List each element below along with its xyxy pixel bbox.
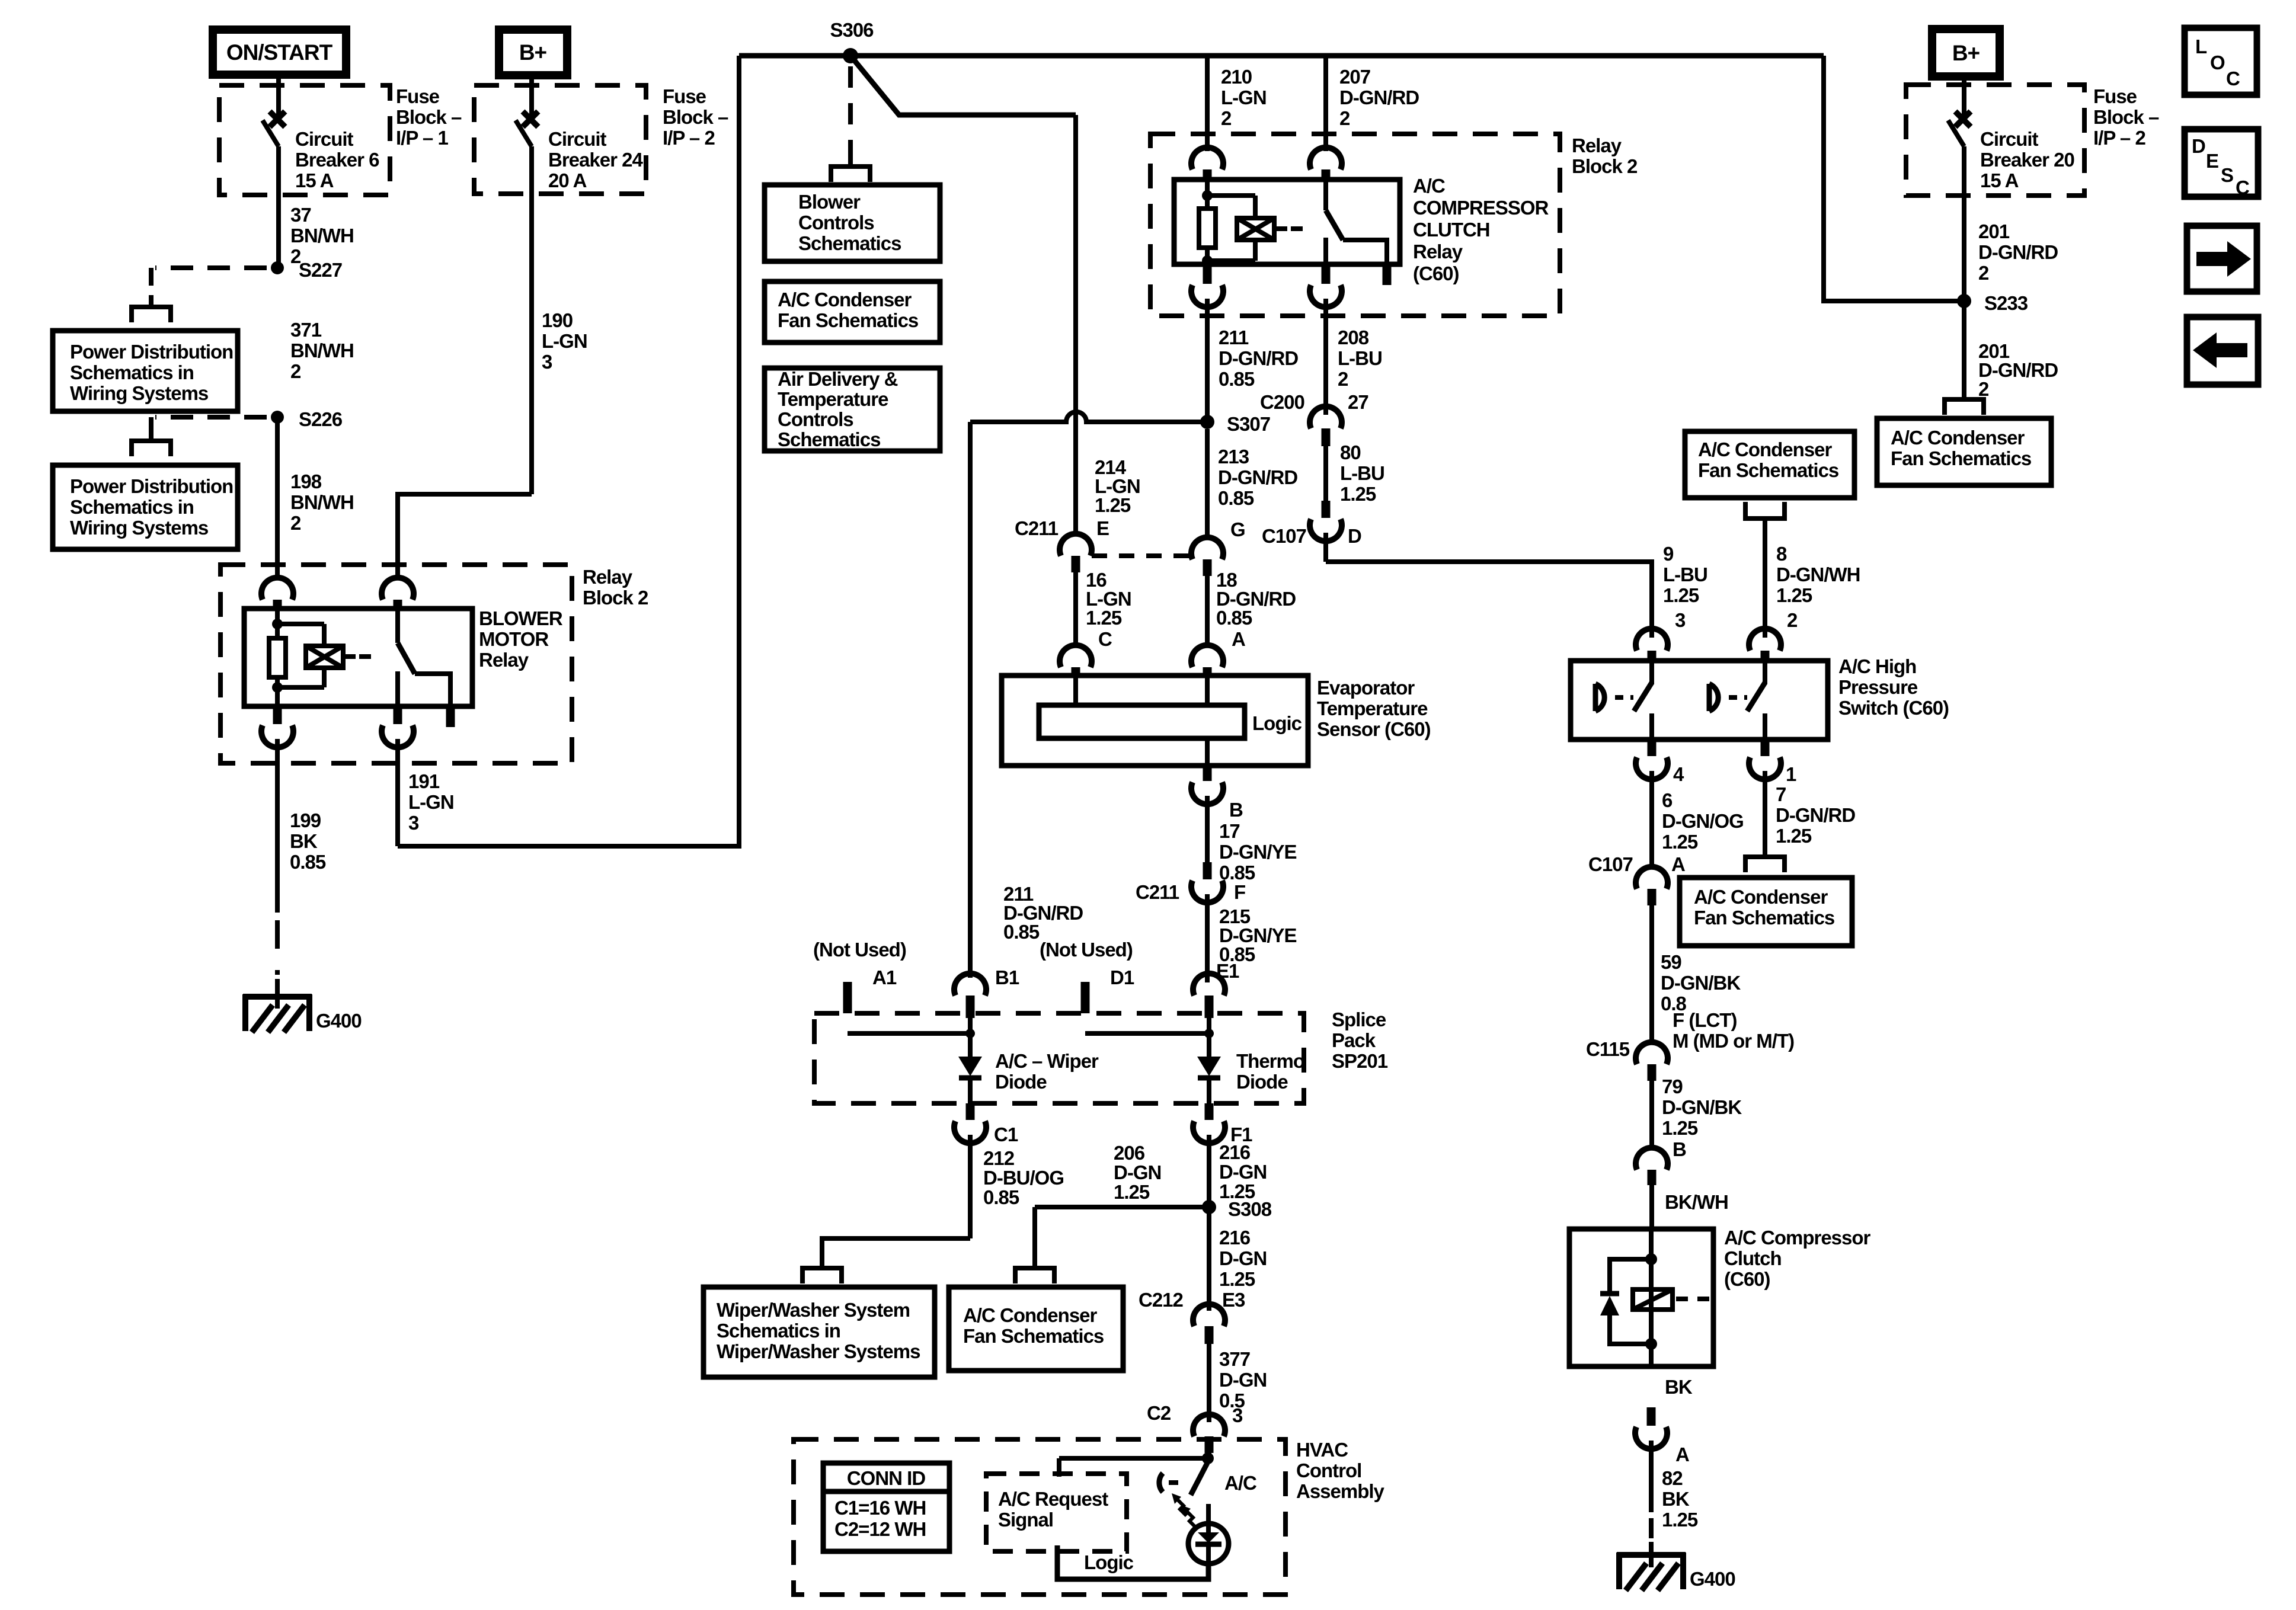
svg-text:3: 3 — [1232, 1404, 1243, 1426]
svg-text:B: B — [1229, 799, 1243, 821]
svg-text:B1: B1 — [995, 966, 1019, 988]
svg-text:COMPRESSOR: COMPRESSOR — [1413, 197, 1549, 219]
svg-text:1.25: 1.25 — [1086, 607, 1122, 629]
svg-text:7: 7 — [1776, 783, 1786, 805]
svg-text:6: 6 — [1662, 789, 1673, 811]
svg-text:S306: S306 — [830, 19, 874, 41]
svg-text:3: 3 — [408, 812, 419, 834]
svg-text:D-GN/WH: D-GN/WH — [1776, 564, 1860, 585]
svg-text:1.25: 1.25 — [1095, 494, 1131, 516]
svg-text:Control: Control — [1296, 1459, 1361, 1481]
svg-text:BN/WH: BN/WH — [290, 225, 354, 247]
svg-text:Circuit: Circuit — [548, 128, 607, 150]
svg-text:Temperature: Temperature — [1317, 697, 1428, 719]
svg-text:Assembly: Assembly — [1296, 1480, 1385, 1502]
svg-text:B+: B+ — [1952, 41, 1980, 65]
svg-text:Signal: Signal — [998, 1509, 1053, 1531]
svg-text:C2=12 WH: C2=12 WH — [834, 1518, 926, 1540]
svg-text:HVAC: HVAC — [1296, 1439, 1348, 1461]
svg-text:Sensor (C60): Sensor (C60) — [1317, 718, 1431, 740]
svg-text:1.25: 1.25 — [1663, 584, 1699, 606]
svg-text:1.25: 1.25 — [1662, 1509, 1698, 1531]
svg-text:B: B — [1673, 1138, 1686, 1160]
svg-text:2: 2 — [1978, 378, 1989, 400]
svg-text:D: D — [2192, 135, 2205, 157]
svg-text:Relay: Relay — [1572, 135, 1622, 156]
svg-text:201: 201 — [1978, 220, 2010, 242]
svg-text:A/C Condenser: A/C Condenser — [1891, 427, 2025, 449]
svg-text:198: 198 — [290, 470, 322, 492]
svg-text:Circuit: Circuit — [295, 128, 354, 150]
svg-text:BK: BK — [1665, 1376, 1693, 1398]
svg-text:C: C — [1098, 628, 1112, 650]
svg-text:A: A — [1671, 853, 1685, 875]
svg-text:G400: G400 — [316, 1010, 362, 1032]
svg-text:Pressure: Pressure — [1838, 676, 1918, 698]
svg-text:Logic: Logic — [1252, 712, 1302, 734]
svg-text:Schematics: Schematics — [778, 428, 880, 450]
svg-text:Relay: Relay — [583, 566, 633, 588]
svg-text:C211: C211 — [1136, 881, 1179, 903]
svg-text:Controls: Controls — [778, 408, 853, 430]
svg-text:(C60): (C60) — [1413, 263, 1459, 284]
svg-text:A/C Compressor: A/C Compressor — [1724, 1227, 1871, 1249]
svg-text:0.85: 0.85 — [1218, 487, 1254, 509]
svg-text:L-BU: L-BU — [1338, 347, 1382, 369]
svg-text:2: 2 — [1338, 368, 1348, 390]
svg-text:2: 2 — [1787, 609, 1798, 631]
svg-text:0.85: 0.85 — [1003, 921, 1040, 943]
svg-text:G400: G400 — [1690, 1568, 1735, 1590]
svg-text:Schematics: Schematics — [798, 232, 901, 254]
svg-text:C200: C200 — [1260, 391, 1304, 413]
svg-text:L-BU: L-BU — [1663, 564, 1707, 585]
svg-text:C1: C1 — [994, 1124, 1018, 1145]
svg-text:20 A: 20 A — [548, 169, 587, 191]
svg-text:BLOWER: BLOWER — [479, 607, 563, 629]
svg-text:D-GN/YE: D-GN/YE — [1219, 841, 1297, 863]
svg-text:Breaker 6: Breaker 6 — [295, 149, 379, 171]
svg-text:1.25: 1.25 — [1662, 1117, 1698, 1139]
svg-text:D-GN/RD: D-GN/RD — [1978, 241, 2058, 263]
svg-text:D1: D1 — [1110, 966, 1134, 988]
svg-text:Breaker 20: Breaker 20 — [1980, 149, 2074, 171]
svg-text:C115: C115 — [1586, 1038, 1630, 1060]
svg-text:C: C — [2236, 177, 2249, 199]
svg-text:17: 17 — [1219, 820, 1240, 842]
svg-text:1.25: 1.25 — [1776, 584, 1812, 606]
svg-text:Power Distribution: Power Distribution — [70, 475, 233, 497]
svg-text:C211: C211 — [1015, 517, 1059, 539]
svg-text:208: 208 — [1338, 327, 1369, 348]
svg-text:1.25: 1.25 — [1340, 483, 1376, 505]
svg-text:Fuse: Fuse — [396, 85, 440, 107]
svg-text:Fan Schematics: Fan Schematics — [1694, 907, 1834, 929]
svg-text:Relay: Relay — [1413, 241, 1463, 263]
svg-text:C: C — [2226, 68, 2240, 89]
svg-text:C1=16 WH: C1=16 WH — [834, 1497, 926, 1519]
svg-text:D-BU/OG: D-BU/OG — [983, 1167, 1064, 1189]
svg-text:Fan Schematics: Fan Schematics — [778, 309, 918, 331]
svg-text:Fuse: Fuse — [663, 85, 706, 107]
svg-text:0.85: 0.85 — [1219, 368, 1255, 390]
svg-text:D-GN/RD: D-GN/RD — [1776, 804, 1855, 826]
svg-text:I/P – 1: I/P – 1 — [396, 127, 448, 149]
svg-text:2: 2 — [290, 245, 301, 267]
svg-text:207: 207 — [1339, 66, 1370, 88]
svg-text:Logic: Logic — [1084, 1551, 1134, 1573]
svg-text:C212: C212 — [1139, 1289, 1184, 1311]
svg-text:L-GN: L-GN — [408, 791, 454, 813]
svg-text:S233: S233 — [1984, 292, 2028, 314]
svg-text:Temperature: Temperature — [778, 388, 888, 410]
svg-text:A/C High: A/C High — [1838, 655, 1916, 677]
svg-text:F (LCT): F (LCT) — [1673, 1009, 1737, 1031]
svg-text:A/C Condenser: A/C Condenser — [1698, 438, 1833, 460]
svg-text:80: 80 — [1340, 441, 1361, 463]
svg-text:D-GN: D-GN — [1219, 1369, 1267, 1391]
svg-text:BK: BK — [1662, 1488, 1690, 1510]
svg-text:O: O — [2210, 52, 2225, 73]
svg-text:Evaporator: Evaporator — [1317, 677, 1415, 699]
svg-text:SP201: SP201 — [1332, 1050, 1388, 1072]
svg-text:S226: S226 — [299, 408, 343, 430]
svg-text:(C60): (C60) — [1724, 1268, 1770, 1290]
svg-text:BN/WH: BN/WH — [290, 491, 354, 513]
svg-text:I/P – 2: I/P – 2 — [663, 127, 715, 149]
svg-text:A/C Condenser: A/C Condenser — [778, 289, 912, 311]
svg-text:Block 2: Block 2 — [1572, 155, 1638, 177]
svg-text:199: 199 — [290, 809, 321, 831]
svg-text:F: F — [1234, 881, 1245, 903]
svg-text:211: 211 — [1219, 327, 1249, 348]
svg-text:(Not Used): (Not Used) — [1040, 939, 1133, 961]
svg-text:216: 216 — [1219, 1141, 1251, 1163]
svg-text:206: 206 — [1114, 1142, 1145, 1164]
svg-text:Block –: Block – — [663, 106, 728, 128]
svg-text:A1: A1 — [872, 966, 897, 988]
svg-text:BK: BK — [290, 830, 318, 852]
svg-text:Circuit: Circuit — [1980, 128, 2039, 150]
svg-text:Controls: Controls — [798, 212, 874, 233]
svg-text:Diode: Diode — [1236, 1071, 1288, 1093]
svg-text:27: 27 — [1348, 391, 1368, 413]
svg-text:D-GN/RD: D-GN/RD — [1978, 359, 2058, 381]
svg-text:82: 82 — [1662, 1467, 1683, 1489]
svg-text:213: 213 — [1218, 446, 1249, 468]
svg-text:210: 210 — [1221, 66, 1252, 88]
svg-text:(Not Used): (Not Used) — [813, 939, 906, 961]
svg-text:S: S — [2221, 164, 2233, 186]
svg-text:15 A: 15 A — [1980, 169, 2019, 191]
svg-text:37: 37 — [290, 204, 311, 226]
svg-text:A/C Request: A/C Request — [998, 1488, 1108, 1510]
svg-text:Block –: Block – — [396, 106, 462, 128]
svg-text:1.25: 1.25 — [1114, 1181, 1150, 1203]
svg-text:D-GN: D-GN — [1114, 1161, 1161, 1183]
svg-text:C2: C2 — [1147, 1402, 1171, 1424]
svg-text:S307: S307 — [1227, 413, 1270, 435]
svg-text:D-GN/RD: D-GN/RD — [1339, 87, 1419, 108]
svg-text:L-GN: L-GN — [542, 330, 587, 352]
svg-text:9: 9 — [1663, 543, 1674, 565]
svg-text:ON/START: ON/START — [226, 40, 333, 65]
svg-text:1.25: 1.25 — [1219, 1180, 1255, 1202]
svg-text:1.25: 1.25 — [1219, 1268, 1255, 1290]
svg-text:190: 190 — [542, 309, 573, 331]
svg-text:Wiper/Washer Systems: Wiper/Washer Systems — [717, 1340, 920, 1362]
svg-text:CONN ID: CONN ID — [847, 1467, 926, 1489]
svg-text:Diode: Diode — [995, 1071, 1047, 1093]
svg-text:8: 8 — [1776, 543, 1787, 565]
svg-text:Clutch: Clutch — [1724, 1247, 1782, 1269]
svg-text:2: 2 — [290, 360, 301, 382]
svg-text:Switch (C60): Switch (C60) — [1838, 697, 1949, 719]
svg-text:0.85: 0.85 — [1216, 607, 1252, 629]
svg-text:D-GN/RD: D-GN/RD — [1218, 466, 1297, 488]
svg-text:MOTOR: MOTOR — [479, 628, 549, 650]
svg-text:A/C Condenser: A/C Condenser — [963, 1304, 1098, 1326]
svg-text:0.85: 0.85 — [290, 851, 326, 873]
svg-text:191: 191 — [408, 770, 440, 792]
svg-text:A/C Condenser: A/C Condenser — [1694, 886, 1828, 908]
svg-text:Schematics in: Schematics in — [70, 496, 194, 518]
svg-text:371: 371 — [290, 319, 322, 341]
svg-text:212: 212 — [983, 1147, 1015, 1169]
svg-text:S227: S227 — [299, 259, 342, 281]
svg-text:216: 216 — [1219, 1227, 1251, 1249]
svg-text:3: 3 — [1675, 609, 1686, 631]
svg-text:D: D — [1348, 525, 1361, 547]
svg-text:Blower: Blower — [798, 191, 861, 213]
svg-text:1.25: 1.25 — [1776, 825, 1812, 847]
svg-text:CLUTCH: CLUTCH — [1413, 219, 1490, 241]
svg-text:Wiring Systems: Wiring Systems — [70, 382, 208, 404]
svg-text:377: 377 — [1219, 1348, 1250, 1370]
svg-text:L-GN: L-GN — [1221, 87, 1267, 108]
svg-text:1.25: 1.25 — [1662, 831, 1698, 853]
svg-text:E3: E3 — [1222, 1289, 1245, 1311]
svg-text:Air Delivery &: Air Delivery & — [778, 368, 898, 390]
svg-text:0.85: 0.85 — [983, 1186, 1019, 1208]
svg-text:G: G — [1230, 518, 1245, 540]
svg-text:Block –: Block – — [2093, 106, 2159, 128]
svg-text:Schematics in: Schematics in — [70, 361, 194, 383]
svg-text:Fan Schematics: Fan Schematics — [1891, 447, 2031, 469]
svg-text:BN/WH: BN/WH — [290, 340, 354, 361]
svg-text:Schematics in: Schematics in — [717, 1320, 840, 1342]
svg-text:D-GN/OG: D-GN/OG — [1662, 810, 1744, 832]
svg-text:A: A — [1675, 1443, 1689, 1465]
svg-text:2: 2 — [290, 512, 301, 534]
svg-text:3: 3 — [542, 351, 552, 373]
svg-text:Wiring Systems: Wiring Systems — [70, 517, 208, 539]
svg-text:D-GN: D-GN — [1219, 1247, 1267, 1269]
svg-text:D-GN/BK: D-GN/BK — [1662, 1096, 1742, 1118]
svg-text:2: 2 — [1978, 262, 1989, 284]
svg-text:Power Distribution: Power Distribution — [70, 341, 233, 363]
svg-text:59: 59 — [1661, 951, 1681, 973]
svg-text:Wiper/Washer System: Wiper/Washer System — [717, 1299, 910, 1321]
svg-text:Breaker 24: Breaker 24 — [548, 149, 643, 171]
svg-text:Splice: Splice — [1332, 1009, 1386, 1030]
svg-text:I/P – 2: I/P – 2 — [2093, 127, 2145, 149]
svg-text:A/C: A/C — [1224, 1472, 1256, 1494]
svg-text:1: 1 — [1786, 763, 1796, 785]
svg-text:L: L — [2195, 36, 2207, 57]
svg-text:A/C: A/C — [1413, 175, 1445, 197]
svg-text:15 A: 15 A — [295, 169, 334, 191]
svg-text:D-GN/BK: D-GN/BK — [1661, 972, 1741, 994]
svg-text:79: 79 — [1662, 1076, 1683, 1097]
svg-text:2: 2 — [1339, 107, 1350, 129]
svg-text:Pack: Pack — [1332, 1029, 1376, 1051]
svg-text:Block 2: Block 2 — [583, 587, 648, 609]
svg-text:Thermo: Thermo — [1236, 1050, 1304, 1072]
svg-text:M (MD or M/T): M (MD or M/T) — [1673, 1030, 1794, 1052]
svg-text:B+: B+ — [519, 40, 547, 65]
svg-text:4: 4 — [1673, 763, 1684, 785]
svg-text:D-GN/RD: D-GN/RD — [1219, 347, 1298, 369]
svg-text:E: E — [1096, 517, 1109, 539]
svg-text:C107: C107 — [1588, 853, 1633, 875]
svg-text:2: 2 — [1221, 107, 1232, 129]
svg-text:Fuse: Fuse — [2093, 85, 2137, 107]
svg-text:L-BU: L-BU — [1340, 462, 1384, 484]
svg-text:Fan Schematics: Fan Schematics — [963, 1325, 1104, 1347]
svg-text:BK/WH: BK/WH — [1665, 1191, 1728, 1213]
svg-text:A/C – Wiper: A/C – Wiper — [995, 1050, 1099, 1072]
svg-text:E: E — [2206, 150, 2218, 172]
svg-text:D-GN: D-GN — [1219, 1161, 1267, 1183]
svg-text:Fan Schematics: Fan Schematics — [1698, 459, 1838, 481]
svg-text:C107: C107 — [1262, 525, 1306, 547]
svg-text:A: A — [1232, 628, 1245, 650]
svg-text:Relay: Relay — [479, 649, 529, 671]
